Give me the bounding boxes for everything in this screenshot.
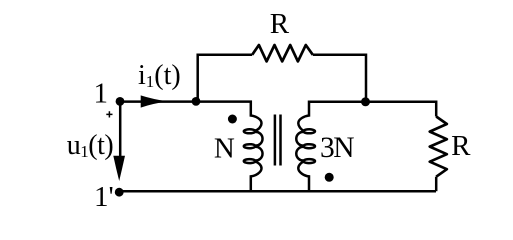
svg-text:1': 1': [94, 181, 114, 213]
svg-text:u1(t): u1(t): [67, 130, 114, 161]
svg-text:i1(t): i1(t): [138, 60, 181, 91]
wire: top branch left vertical and run to resistor: [198, 55, 253, 102]
wire: top horizontal from right coil corner to node: [309, 101, 366, 104]
polarity dot primary: [228, 115, 237, 124]
current arrow i1(t): [141, 95, 168, 107]
resistor R2 (right) zigzag: [430, 117, 447, 177]
voltage arrow u1(t) head: [113, 156, 125, 181]
svg-text:R: R: [451, 130, 471, 162]
svg-text:N: N: [214, 132, 235, 164]
svg-text:R: R: [270, 8, 290, 40]
node junction left (top wire / top branch): [192, 97, 201, 106]
resistor R1 (top) zigzag: [252, 45, 313, 61]
transformer core (two vertical bars): [275, 115, 281, 166]
wire: right horizontal from node to right resistor corner: [366, 102, 437, 117]
wire: bottom horizontal from node 1' to right resistor: [119, 190, 436, 193]
node 1' terminal dot: [115, 188, 124, 197]
polarity dot secondary: [325, 173, 334, 182]
wire: top horizontal from node 1 to left coil corner: [120, 100, 252, 103]
svg-text:3N: 3N: [320, 132, 354, 164]
transformer primary coil N (left winding): [244, 101, 263, 192]
svg-text:1: 1: [94, 78, 109, 110]
node 1 terminal dot: [116, 97, 125, 106]
voltage arrow u1(t) line: [119, 104, 122, 157]
wire: right resistor bottom stub to bottom wire: [435, 177, 438, 192]
node junction right (top wire / top branch / resistor): [361, 97, 370, 106]
plus sign: [106, 111, 112, 117]
wire: top run right of resistor R1 down to right node: [313, 55, 366, 102]
transformer secondary coil 3N (right winding): [296, 101, 315, 192]
